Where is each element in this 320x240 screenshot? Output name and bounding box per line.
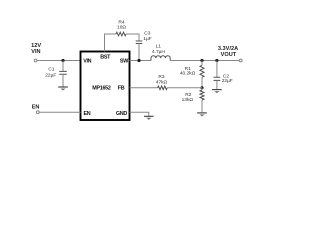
- svg-text:4.7µH: 4.7µH: [152, 49, 165, 55]
- junction R1 tap: [200, 59, 203, 62]
- svg-text:40.2kΩ: 40.2kΩ: [180, 71, 196, 77]
- resistor R2: [200, 90, 204, 112]
- ground below C2: [212, 90, 222, 94]
- wire GND pin: [130, 112, 149, 116]
- svg-text:BST: BST: [100, 54, 111, 60]
- svg-text:L1: L1: [156, 43, 162, 49]
- svg-text:SW: SW: [120, 58, 129, 64]
- svg-text:22µF: 22µF: [222, 78, 233, 84]
- resistor R4: [116, 32, 126, 36]
- svg-text:13kΩ: 13kΩ: [182, 97, 194, 103]
- capacitor C2: [214, 77, 221, 89]
- value label C1 22uF: [45, 67, 56, 79]
- svg-text:22µF: 22µF: [45, 72, 56, 78]
- ground below R2: [197, 113, 207, 117]
- resistor R3: [158, 86, 168, 90]
- wire VIN input to IC: [37, 60, 80, 62]
- svg-text:C3: C3: [144, 31, 150, 37]
- wire FB pin to R3: [130, 87, 158, 89]
- wire R2 upper stem: [201, 88, 203, 90]
- wire C1 stem: [62, 61, 64, 72]
- wire EN terminal to IC: [39, 111, 80, 113]
- svg-text:MP1652: MP1652: [92, 85, 111, 91]
- value label C2 22uF: [222, 74, 233, 85]
- svg-text:1µF: 1µF: [143, 36, 151, 42]
- svg-text:R3: R3: [158, 74, 164, 80]
- IC U1 MP1652 body: [81, 52, 130, 121]
- junction C1 tap: [61, 59, 64, 62]
- value label R2 13kohm: [182, 92, 194, 103]
- capacitor C3: [136, 41, 143, 61]
- svg-text:12V: 12V: [31, 43, 41, 49]
- svg-text:GND: GND: [116, 111, 127, 117]
- label 3.3V/2A VOUT: [218, 46, 238, 58]
- value label R3 47kohm: [156, 74, 168, 85]
- svg-text:VOUT: VOUT: [221, 52, 237, 58]
- svg-text:47kΩ: 47kΩ: [156, 79, 168, 85]
- junction FB node: [200, 86, 203, 89]
- svg-text:10Ω: 10Ω: [117, 24, 126, 30]
- junction C2 tap: [215, 59, 218, 62]
- wire BST pin riser: [105, 34, 117, 52]
- ground below C1: [58, 87, 68, 91]
- junction BST cap to SW: [137, 59, 140, 62]
- capacitor C1: [59, 71, 67, 86]
- value label C3 1uF: [143, 31, 151, 43]
- wire R4 to C3: [126, 34, 139, 41]
- label 12V VIN: [31, 43, 41, 55]
- node VIN input terminal: [34, 59, 37, 62]
- ground below GND pin: [144, 116, 154, 120]
- inductor L1: [151, 56, 170, 61]
- svg-text:VIN: VIN: [31, 49, 40, 55]
- svg-text:C1: C1: [48, 67, 54, 73]
- value label R4 10ohm: [117, 19, 126, 30]
- node VOUT output terminal: [239, 59, 242, 62]
- wire R1 upper stem: [201, 61, 203, 66]
- wire C2 stem: [216, 61, 218, 78]
- value label L1 4.7uH: [152, 43, 165, 55]
- value label R1 40.2kohm: [180, 66, 196, 77]
- wire R3 to FB node: [167, 87, 202, 89]
- node EN input terminal: [36, 111, 39, 114]
- svg-text:VIN: VIN: [83, 58, 91, 64]
- wire SW pin to L1: [130, 60, 152, 62]
- svg-text:EN: EN: [84, 111, 91, 117]
- svg-text:EN: EN: [32, 104, 40, 110]
- wire L1 to VOUT terminal: [170, 60, 239, 62]
- resistor R1: [200, 65, 204, 88]
- svg-text:FB: FB: [118, 85, 125, 91]
